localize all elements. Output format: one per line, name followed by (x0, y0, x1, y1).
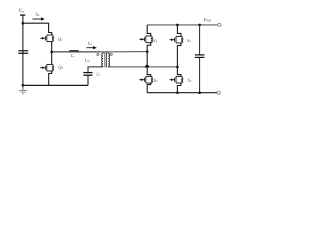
node: bottom rail junction dot (cap) (198, 91, 201, 94)
terminal: Vout+ open circle (218, 23, 221, 26)
wire: left leg mid to S2 (147, 52, 151, 77)
wire: Cr bottom lead (87, 75, 89, 85)
svg-text:Vout: Vout (203, 18, 212, 23)
terminal: Vout- open circle (217, 91, 220, 94)
node: top rail junction dot (right leg) (176, 24, 179, 27)
transistor S1 (139, 36, 153, 43)
wire: S2 source to bottom rail (147, 83, 151, 93)
wire: right bridge leg top (177, 25, 181, 37)
node: input junction dot (22, 22, 25, 25)
svg-text:S2: S2 (154, 78, 158, 83)
wire: primary mid wire (52, 51, 101, 53)
node: right leg mid junction dot (176, 66, 179, 69)
inductor Lr (70, 50, 79, 51)
svg-text:Iin: Iin (34, 12, 39, 17)
wire: bridge bottom rail (147, 92, 219, 94)
transistor S3 (170, 36, 184, 43)
node: half-bridge midpoint dot (50, 51, 53, 54)
wire: S4 source to bottom rail (177, 83, 181, 93)
wire: secondary bottom wire (108, 66, 145, 68)
transformer T1 secondary winding (108, 52, 109, 67)
wire: bottom rail left section (23, 84, 88, 86)
wire: Q2 source to bottom rail (49, 71, 52, 85)
node: secondary top junction dot (146, 50, 149, 53)
svg-text:S3: S3 (187, 38, 191, 43)
svg-text:Q1: Q1 (58, 36, 63, 41)
svg-text:Q2: Q2 (58, 65, 63, 70)
wire: S3 source to mid node (177, 43, 181, 67)
ground (19, 85, 27, 93)
transformer polarity dot primary (97, 53, 99, 55)
wire: mid node to S4 (177, 67, 181, 77)
transformer T1 primary winding (102, 52, 103, 67)
wire: left bridge leg top (147, 25, 151, 36)
transistor S4 (170, 76, 184, 83)
wire: secondary bottom wire right (149, 66, 178, 68)
wire: left input branch vertical (22, 15, 24, 85)
capacitor Cr lead top / primary bottom wire (88, 67, 103, 73)
capacitor Cr (83, 72, 92, 74)
wire: top wire to Q1 (23, 23, 52, 35)
wire: output cap bottom lead (199, 57, 201, 92)
transistor Q2 (40, 64, 54, 71)
svg-text:S1: S1 (153, 38, 157, 43)
wire: midpoint down to Q2 (51, 52, 53, 65)
node: ground junction dot (22, 84, 25, 87)
svg-text:Lm: Lm (84, 58, 90, 63)
transformer T1 core (104, 52, 106, 67)
wire: bridge top rail (147, 24, 219, 26)
transistor Q1 (40, 35, 54, 42)
node: top rail junction dot (cap) (198, 24, 201, 27)
svg-text:Cr: Cr (96, 72, 101, 77)
wire: output cap branch (199, 25, 201, 55)
transformer polarity dot secondary (110, 53, 112, 55)
transistor S2 (139, 76, 153, 83)
current arrow ILr (87, 47, 94, 49)
node: bottom rail junction dot (right leg) (176, 91, 179, 94)
svg-text:Lr: Lr (70, 53, 75, 58)
svg-text:ILr: ILr (87, 42, 93, 46)
wire: secondary top wire to rectifier (101, 51, 147, 53)
Vin terminal tick (20, 14, 25, 16)
wire: S1 source to sec-top node (147, 43, 151, 52)
svg-text:S4: S4 (187, 77, 191, 82)
wire: Q1 source to midpoint (51, 42, 53, 52)
wire: crossover hop (145, 65, 149, 67)
svg-text:Vin: Vin (19, 9, 25, 14)
input capacitor (18, 50, 28, 52)
current arrow Iin (33, 18, 43, 20)
output capacitor (195, 54, 205, 56)
